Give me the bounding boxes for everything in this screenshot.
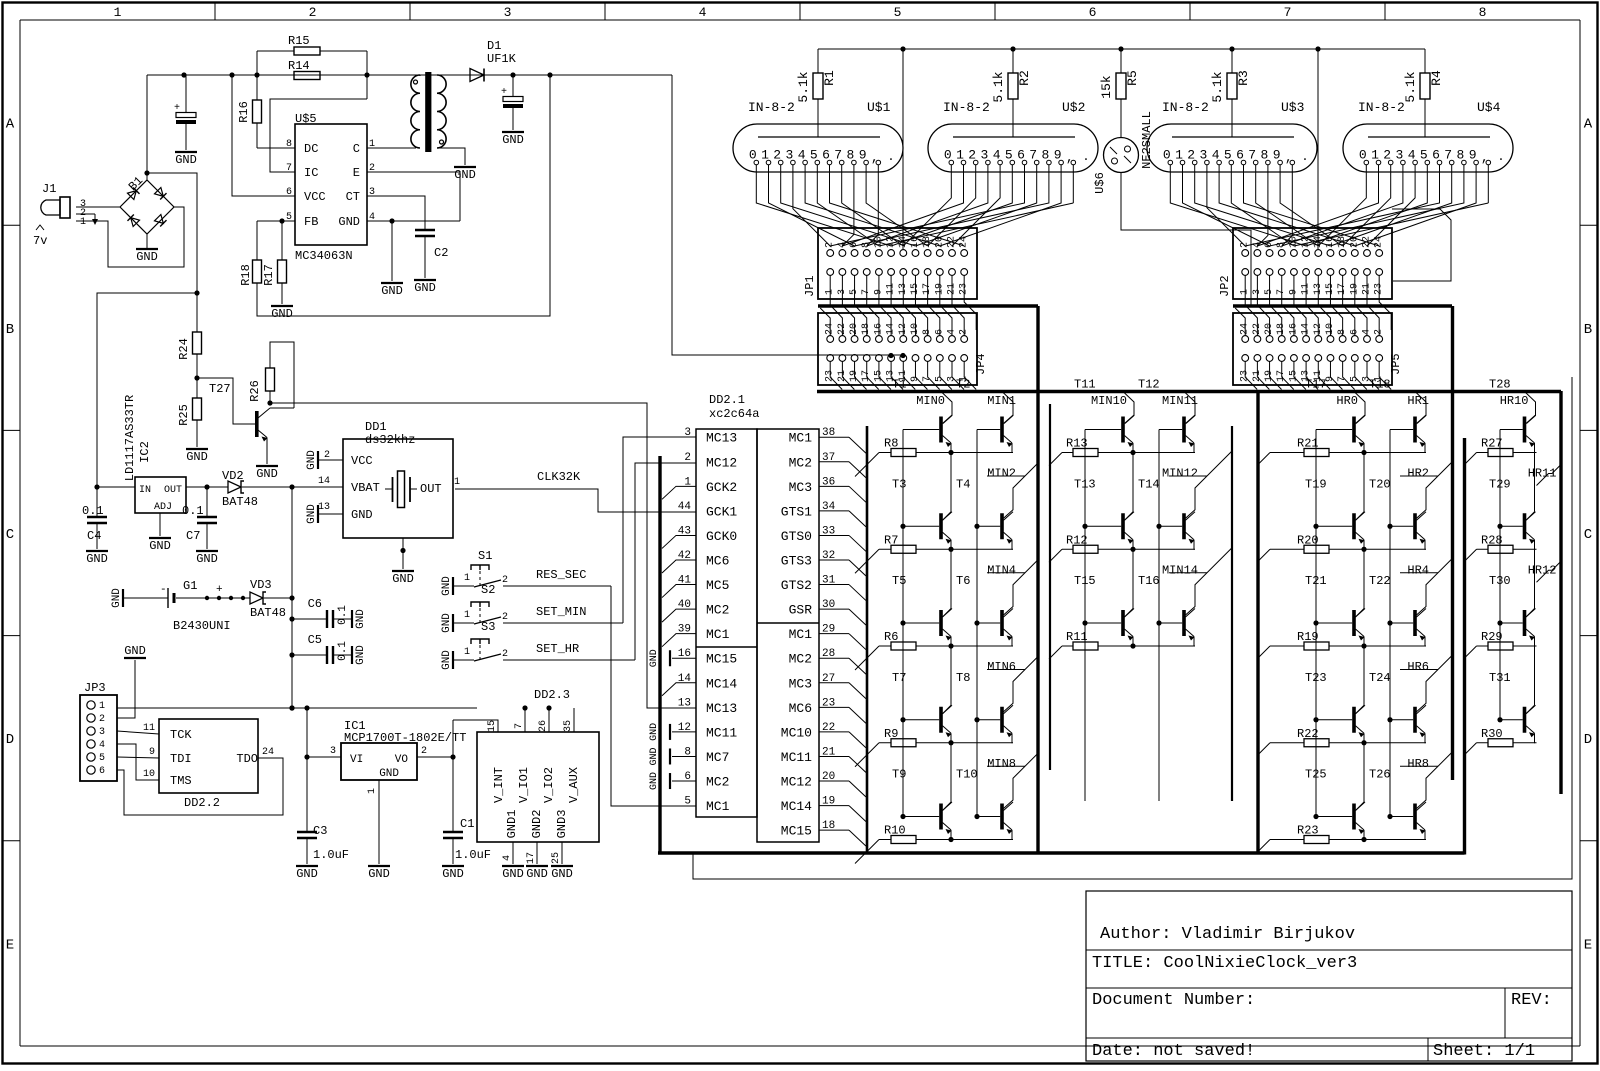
wire VO rail bbox=[452, 720, 454, 831]
wire SET_MIN to pin3 bbox=[623, 437, 696, 623]
IC DD2.3 bbox=[477, 688, 599, 864]
svg-text:C4: C4 bbox=[87, 529, 101, 543]
transistor T10 bbox=[977, 753, 1038, 840]
svg-text:JP5: JP5 bbox=[1389, 353, 1403, 375]
svg-text:MC13: MC13 bbox=[706, 701, 737, 716]
svg-text:MC2: MC2 bbox=[789, 652, 812, 667]
label T10 bbox=[956, 768, 978, 782]
svg-text:R3: R3 bbox=[1236, 70, 1251, 86]
label T16 bbox=[1138, 574, 1160, 588]
svg-text:GND: GND bbox=[526, 867, 548, 881]
svg-text:7: 7 bbox=[1284, 5, 1292, 20]
svg-text:2: 2 bbox=[309, 5, 317, 20]
wires base rail right column bbox=[1156, 430, 1161, 802]
svg-text:DD2.2: DD2.2 bbox=[184, 796, 220, 810]
junction rail-513 bbox=[510, 72, 515, 77]
svg-text:U$2: U$2 bbox=[1062, 100, 1085, 115]
svg-text:Date: not saved!: Date: not saved! bbox=[1092, 1042, 1255, 1061]
svg-text:V_IO1: V_IO1 bbox=[517, 767, 531, 803]
svg-text:C5: C5 bbox=[308, 633, 322, 647]
bridge rectifier B1 bbox=[120, 174, 174, 234]
junction rail-232 bbox=[229, 72, 234, 77]
transistor T16 bbox=[1159, 548, 1232, 647]
svg-text:GND: GND bbox=[502, 867, 524, 881]
svg-text:GND: GND bbox=[256, 467, 278, 481]
svg-text:T28: T28 bbox=[1489, 378, 1511, 392]
resistor R6 bbox=[855, 630, 1013, 670]
svg-text:GND: GND bbox=[392, 572, 414, 586]
resistor R21 bbox=[1257, 437, 1426, 466]
svg-text:GND: GND bbox=[442, 867, 464, 881]
svg-text:.: . bbox=[887, 150, 894, 164]
svg-text:VD3: VD3 bbox=[250, 578, 272, 592]
ground under C2 bbox=[414, 280, 436, 295]
svg-text:T5: T5 bbox=[892, 574, 906, 588]
bus group2 left bbox=[1049, 404, 1051, 770]
svg-text:U$3: U$3 bbox=[1281, 100, 1304, 115]
ground under C7 bbox=[196, 551, 218, 566]
label T5 bbox=[892, 574, 906, 588]
svg-text:MC7: MC7 bbox=[706, 750, 729, 765]
transistor T14 bbox=[1159, 451, 1232, 550]
svg-text:R4: R4 bbox=[1429, 70, 1444, 86]
svg-text:24: 24 bbox=[959, 236, 970, 248]
svg-text:U$1: U$1 bbox=[867, 100, 891, 115]
wires base rail left column bbox=[1313, 430, 1318, 820]
svg-text:LD1117AS33TR: LD1117AS33TR bbox=[123, 395, 137, 481]
svg-text:1.0uF: 1.0uF bbox=[313, 848, 349, 862]
svg-text:MC6: MC6 bbox=[706, 554, 729, 569]
svg-text:HR2: HR2 bbox=[1407, 467, 1429, 481]
wire J1 pin1 loop bbox=[76, 207, 184, 267]
svg-text:R24: R24 bbox=[177, 338, 191, 360]
svg-text:JP4: JP4 bbox=[974, 353, 988, 375]
svg-text:DD2.1: DD2.1 bbox=[709, 393, 745, 407]
bus H4 bottom bbox=[658, 851, 1465, 854]
svg-text:IC2: IC2 bbox=[138, 441, 152, 463]
svg-text:GND: GND bbox=[351, 508, 373, 522]
svg-text:DC: DC bbox=[304, 142, 318, 156]
transistor T15 bbox=[1085, 549, 1134, 646]
wire J1 pin2 stub bbox=[76, 214, 98, 225]
wire IC2 OUT bbox=[186, 484, 228, 489]
svg-text:25: 25 bbox=[551, 852, 562, 864]
title block box bbox=[1086, 891, 1572, 1061]
svg-text:T20: T20 bbox=[1369, 477, 1391, 491]
transistor T27 bbox=[255, 408, 294, 464]
svg-text:MC11: MC11 bbox=[781, 750, 812, 765]
svg-text:MC3: MC3 bbox=[789, 676, 812, 691]
resistor R8 bbox=[855, 437, 1013, 477]
svg-text:MC1: MC1 bbox=[706, 799, 730, 814]
junction anode rail bbox=[1010, 46, 1015, 51]
wire JP3 pin1 net bbox=[117, 705, 552, 710]
svg-text:MC15: MC15 bbox=[781, 824, 812, 839]
wires U$2 cathode leads bbox=[951, 165, 1073, 203]
title author text bbox=[1100, 925, 1355, 944]
label MIN8 bbox=[987, 757, 1016, 771]
svg-text:,: , bbox=[871, 150, 879, 165]
wire primary top to rail bbox=[419, 75, 421, 76]
svg-text:GND: GND bbox=[111, 588, 123, 608]
label HR6 bbox=[1407, 660, 1429, 674]
ground under C4 bbox=[86, 551, 108, 566]
wire U$5 pin2 E bbox=[367, 172, 460, 221]
wire anode feed JP1 bbox=[902, 49, 904, 249]
svg-text:S1: S1 bbox=[478, 549, 492, 563]
svg-text:24: 24 bbox=[1374, 236, 1385, 248]
label T14 bbox=[1138, 477, 1160, 491]
label MIN0 bbox=[916, 394, 945, 408]
wire HV anode rail bbox=[818, 48, 1425, 50]
resistor R26 bbox=[248, 342, 294, 408]
svg-text:GND: GND bbox=[502, 133, 524, 147]
svg-text:0.1: 0.1 bbox=[337, 641, 349, 661]
svg-text:2: 2 bbox=[502, 575, 508, 586]
wire VD3 to battery rail bbox=[264, 597, 292, 599]
svg-text:MC14: MC14 bbox=[781, 799, 812, 814]
transistor T5 bbox=[903, 549, 952, 646]
svg-text:IC: IC bbox=[304, 166, 318, 180]
svg-text:1: 1 bbox=[464, 610, 470, 621]
svg-text:GCK2: GCK2 bbox=[706, 480, 737, 495]
ground at DD1 pin2 bbox=[306, 450, 343, 470]
svg-text:5: 5 bbox=[99, 753, 105, 764]
svg-text:18: 18 bbox=[922, 236, 933, 248]
switch row SET_MIN bbox=[441, 602, 623, 634]
resistor R13 bbox=[1049, 437, 1195, 466]
wires base rail right column bbox=[1387, 430, 1392, 820]
wire JP3 pin4 TMS bbox=[117, 744, 159, 780]
svg-text:RES_SEC: RES_SEC bbox=[536, 568, 586, 582]
label T12 bbox=[1138, 378, 1160, 392]
svg-text:8: 8 bbox=[1479, 5, 1487, 20]
bus group1 left bbox=[866, 426, 869, 855]
wire D1 to HV bbox=[484, 74, 672, 76]
ground at DD2.1 pin bbox=[649, 747, 696, 765]
svg-text:4: 4 bbox=[502, 855, 513, 861]
svg-text:T9: T9 bbox=[892, 768, 906, 782]
svg-text:C: C bbox=[353, 142, 360, 156]
resistor R10 bbox=[855, 824, 1013, 864]
transformer TR1 bbox=[411, 72, 446, 152]
connector JP5 bbox=[1233, 313, 1403, 385]
connector JP3 bbox=[80, 681, 117, 781]
svg-text:MCP1700T-1802E/TT: MCP1700T-1802E/TT bbox=[344, 731, 466, 745]
label T3 bbox=[892, 477, 906, 491]
transistor T27 label bbox=[209, 382, 231, 396]
resistor R28 bbox=[1464, 533, 1537, 562]
IC DD2.2 JTAG bbox=[143, 719, 274, 810]
J1 pin labels bbox=[80, 199, 86, 228]
label MIN14 bbox=[1162, 563, 1198, 577]
wire battery rail x292 bbox=[289, 487, 294, 711]
wire U$5 pin5 FB bbox=[257, 218, 295, 223]
svg-text:10: 10 bbox=[873, 236, 884, 248]
svg-text:ADJ: ADJ bbox=[154, 502, 172, 513]
svg-text:GND: GND bbox=[149, 539, 171, 553]
svg-text:R18: R18 bbox=[239, 264, 253, 286]
junction rail-257 bbox=[254, 72, 259, 77]
capacitor C2 bbox=[415, 228, 448, 278]
junction rail-550 bbox=[547, 72, 552, 77]
svg-text:16: 16 bbox=[910, 236, 921, 248]
IC2 LD1117AS33TR bbox=[123, 395, 186, 513]
label HR12 bbox=[1528, 563, 1557, 577]
svg-text:T17: T17 bbox=[1305, 378, 1327, 392]
label HR8 bbox=[1407, 757, 1429, 771]
bus group4 left bbox=[1463, 438, 1466, 855]
ground at DD1 pin13 bbox=[306, 504, 343, 524]
wires U$2 fan to connector bbox=[830, 183, 1073, 246]
svg-text:+: + bbox=[174, 103, 180, 114]
svg-text:B: B bbox=[1584, 322, 1592, 338]
ground under T27 bbox=[256, 466, 278, 481]
ground under IC2 ADJ bbox=[149, 513, 171, 553]
svg-text:FB: FB bbox=[304, 215, 318, 229]
transistor T28 bbox=[1500, 392, 1536, 454]
ground at DD2.1 pin bbox=[649, 723, 696, 741]
svg-text:C: C bbox=[1584, 527, 1592, 543]
svg-text:18: 18 bbox=[1337, 236, 1348, 248]
svg-text:VCC: VCC bbox=[351, 454, 373, 468]
svg-text:SET_HR: SET_HR bbox=[536, 642, 579, 656]
svg-text:T29: T29 bbox=[1489, 477, 1511, 491]
svg-text:GND: GND bbox=[649, 723, 660, 741]
svg-text:E: E bbox=[6, 937, 14, 953]
bus H1 above JP4 bbox=[818, 304, 1038, 307]
svg-text:.: . bbox=[1497, 150, 1504, 164]
junction anode rail bbox=[1118, 46, 1123, 51]
junction anode rail bbox=[1315, 46, 1320, 51]
wire bridge top to rail bbox=[144, 75, 149, 180]
svg-text:GND: GND bbox=[306, 504, 318, 524]
wire T27 collector junction bbox=[267, 400, 272, 405]
ground under C3 bbox=[296, 866, 318, 881]
wire RES_SEC to pin5 bbox=[611, 586, 696, 806]
wire IC2 IN bbox=[94, 484, 135, 489]
svg-text:GTS0: GTS0 bbox=[781, 529, 812, 544]
svg-text:C1: C1 bbox=[460, 817, 474, 831]
bus V3 right bbox=[1559, 391, 1562, 794]
label MIN10 bbox=[1091, 394, 1127, 408]
wires connector jogs x818 bbox=[820, 276, 976, 336]
svg-text:16: 16 bbox=[1325, 236, 1336, 248]
ground under U$5 pin4 bbox=[381, 221, 403, 298]
bus H2 above JP5 bbox=[1233, 304, 1452, 307]
svg-text:T4: T4 bbox=[956, 477, 970, 491]
wire R15 left drop bbox=[256, 51, 258, 75]
label NE2SMALL bbox=[1140, 111, 1154, 169]
svg-text:T26: T26 bbox=[1369, 768, 1391, 782]
label T7 bbox=[892, 671, 906, 685]
svg-text:GND: GND bbox=[454, 168, 476, 182]
connector JP2 bbox=[1218, 228, 1392, 299]
svg-text:6: 6 bbox=[99, 766, 105, 777]
svg-text:2: 2 bbox=[502, 612, 508, 623]
svg-text:20: 20 bbox=[934, 236, 945, 248]
svg-text:1: 1 bbox=[464, 647, 470, 658]
wire JP3 pin3 TCK bbox=[117, 731, 159, 734]
label T23 bbox=[1305, 671, 1327, 685]
svg-text:IN-8-2: IN-8-2 bbox=[1162, 100, 1209, 115]
svg-text:GND1: GND1 bbox=[505, 810, 519, 839]
svg-text:3: 3 bbox=[684, 427, 691, 439]
svg-text:GND: GND bbox=[551, 867, 573, 881]
svg-text:MC15: MC15 bbox=[706, 652, 737, 667]
svg-text:MIN2: MIN2 bbox=[987, 467, 1016, 481]
svg-text:GND: GND bbox=[338, 215, 360, 229]
wire B1 tap to IC2 IN bbox=[97, 293, 197, 487]
junction rail-cap bbox=[181, 72, 186, 77]
svg-text:1: 1 bbox=[80, 217, 86, 228]
label U$3 IN-8-2 bbox=[1162, 100, 1209, 115]
svg-text:2: 2 bbox=[99, 714, 105, 725]
svg-text:0.1: 0.1 bbox=[337, 605, 349, 625]
wires base rail left column bbox=[1082, 430, 1087, 802]
svg-text:-: - bbox=[160, 584, 167, 596]
resistor R9 bbox=[855, 727, 1013, 767]
transistor T9 bbox=[903, 743, 952, 840]
svg-text:22: 22 bbox=[947, 236, 958, 248]
svg-text:GSR: GSR bbox=[789, 603, 813, 618]
svg-text:GND: GND bbox=[355, 645, 367, 665]
svg-text:GTS1: GTS1 bbox=[781, 504, 812, 519]
diode VD2 BAT48 bbox=[222, 469, 258, 509]
svg-text:MIN14: MIN14 bbox=[1162, 563, 1198, 577]
label MIN11 bbox=[1162, 394, 1198, 408]
ground under DD2.3 pin25 bbox=[551, 866, 573, 881]
wire U$5 pin1 C to transformer bbox=[367, 147, 416, 149]
svg-text:T2: T2 bbox=[956, 378, 970, 392]
svg-text:V_INT: V_INT bbox=[492, 767, 506, 803]
svg-text:T19: T19 bbox=[1305, 477, 1327, 491]
svg-text:E: E bbox=[1584, 937, 1592, 953]
svg-text:11: 11 bbox=[143, 723, 155, 734]
transistor T29 bbox=[1500, 453, 1561, 550]
svg-text:T1: T1 bbox=[892, 378, 906, 392]
title document number bbox=[1092, 991, 1255, 1010]
label MIN6 bbox=[987, 660, 1016, 674]
svg-text:15: 15 bbox=[487, 720, 498, 732]
svg-text:MC2: MC2 bbox=[706, 775, 729, 790]
resistor R7 bbox=[855, 533, 1013, 573]
wires DD2.1 right pin stubs bbox=[819, 437, 866, 846]
label MIN1 bbox=[987, 394, 1016, 408]
wires base rail left column bbox=[1497, 430, 1502, 723]
label T8 bbox=[956, 671, 970, 685]
IC DD1 ds32khz bbox=[318, 420, 460, 538]
svg-text:HR12: HR12 bbox=[1528, 563, 1557, 577]
svg-text:Document Number:: Document Number: bbox=[1092, 991, 1255, 1010]
svg-text:MIN12: MIN12 bbox=[1162, 467, 1198, 481]
wire IC1 VO bbox=[417, 754, 456, 759]
wire U$5 pin4 GND bbox=[367, 218, 460, 223]
wire IC1 VI rail bbox=[306, 708, 308, 831]
svg-text:4: 4 bbox=[837, 242, 848, 248]
svg-text:35: 35 bbox=[563, 720, 574, 732]
wire tag loop right of JP2 bbox=[1392, 209, 1451, 281]
svg-text:GCK0: GCK0 bbox=[706, 529, 737, 544]
connector J1 bbox=[41, 182, 70, 218]
svg-text:5.1k: 5.1k bbox=[1210, 71, 1225, 102]
svg-text:T21: T21 bbox=[1305, 574, 1327, 588]
svg-text:GND: GND bbox=[355, 609, 367, 629]
wire R18 to feedback rail bbox=[257, 75, 550, 316]
svg-text:GND: GND bbox=[186, 450, 208, 464]
svg-text:TCK: TCK bbox=[170, 728, 192, 742]
label U$1 bbox=[867, 100, 891, 115]
svg-text:OUT: OUT bbox=[164, 485, 182, 496]
svg-text:1.0uF: 1.0uF bbox=[455, 848, 491, 862]
transistor T13 bbox=[1085, 453, 1134, 550]
bus group2 right bbox=[1231, 426, 1233, 801]
svg-text:JP2: JP2 bbox=[1218, 275, 1232, 297]
svg-text:C: C bbox=[6, 527, 14, 543]
svg-text:GND: GND bbox=[136, 250, 158, 264]
IC U$5 MC34063N bbox=[286, 112, 375, 263]
svg-text:10: 10 bbox=[143, 769, 155, 780]
svg-text:MIN1: MIN1 bbox=[987, 394, 1016, 408]
svg-text:MC34063N: MC34063N bbox=[295, 249, 353, 263]
svg-text:MC12: MC12 bbox=[781, 775, 812, 790]
ground at DD2.1 pin bbox=[649, 649, 696, 667]
transistor T7 bbox=[903, 646, 952, 743]
svg-text:Sheet: 1/1: Sheet: 1/1 bbox=[1433, 1042, 1535, 1061]
svg-text:S3: S3 bbox=[481, 620, 495, 634]
label T25 bbox=[1305, 768, 1327, 782]
label T6 bbox=[956, 574, 970, 588]
switch block label S1 bbox=[478, 549, 492, 563]
svg-text:R5: R5 bbox=[1125, 70, 1140, 86]
svg-text:MIN6: MIN6 bbox=[987, 660, 1016, 674]
wire bridge tap to R24 column bbox=[147, 173, 200, 332]
svg-text:R25: R25 bbox=[177, 404, 191, 426]
svg-text:D1: D1 bbox=[487, 39, 501, 53]
svg-text:MC1: MC1 bbox=[789, 627, 813, 642]
resistor R27 bbox=[1464, 437, 1537, 466]
label HR0 bbox=[1336, 394, 1358, 408]
resistor R19 bbox=[1257, 630, 1426, 659]
label MIN12 bbox=[1162, 467, 1198, 481]
svg-text:B: B bbox=[6, 322, 14, 338]
svg-text:T6: T6 bbox=[956, 574, 970, 588]
svg-text:22: 22 bbox=[1362, 236, 1373, 248]
wire DD2.3 bottom pins bbox=[513, 842, 562, 864]
capacitor C3 bbox=[297, 824, 349, 864]
svg-text:T16: T16 bbox=[1138, 574, 1160, 588]
nixie tube U$2 IN-8-2 bbox=[928, 124, 1098, 172]
resistor R24 bbox=[177, 332, 202, 381]
wire JP3 pin6 TDO loop bbox=[117, 758, 283, 815]
ground under DD2.3 pin17 bbox=[526, 866, 548, 881]
transistor T4 bbox=[977, 463, 1038, 550]
resistor R29 bbox=[1464, 630, 1537, 659]
wire SET_HR to pin2 bbox=[635, 463, 696, 660]
wire R24 tap to T27 base bbox=[197, 378, 255, 424]
svg-text:MC1: MC1 bbox=[789, 431, 813, 446]
wire J1 pin3 to bridge bbox=[76, 206, 120, 208]
battery G1 B2430UNI bbox=[160, 579, 245, 633]
label T18 bbox=[1369, 378, 1391, 392]
transistor T21 bbox=[1316, 549, 1365, 646]
svg-text:GND: GND bbox=[124, 644, 146, 658]
svg-text:4: 4 bbox=[699, 5, 707, 20]
title rev bbox=[1511, 991, 1552, 1010]
svg-text:,: , bbox=[1066, 150, 1074, 165]
svg-text:MC10: MC10 bbox=[781, 725, 812, 740]
svg-text:D: D bbox=[6, 732, 14, 748]
